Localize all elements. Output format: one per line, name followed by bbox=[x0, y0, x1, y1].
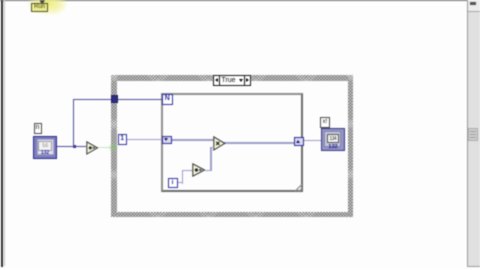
wire: i terminal right stub bbox=[178, 182, 183, 183]
control label "n" bbox=[34, 123, 42, 134]
case selector tunnel (green) bbox=[108, 142, 119, 153]
wire: horizontal to N terminal bbox=[73, 99, 163, 100]
increment node (+1) bbox=[192, 163, 206, 177]
wire: into multiply lower input bbox=[210, 147, 214, 148]
tooltip "Run" bbox=[31, 3, 48, 12]
wire: into increment node bbox=[182, 170, 193, 171]
wire: i vertical up bbox=[182, 170, 183, 184]
run-button tooltip yellow glow bbox=[26, 0, 68, 16]
wire: 1 to left shift register bbox=[127, 139, 163, 140]
indicator label bbox=[320, 117, 330, 128]
tunnel on case left border bbox=[111, 95, 119, 103]
scrollbar thumb grip lines bbox=[470, 131, 476, 132]
left border inner light line bbox=[4, 0, 5, 266]
case structure left border bbox=[111, 75, 117, 217]
tooltip glow secondary bbox=[44, 0, 68, 16]
N count terminal bbox=[162, 94, 173, 105]
mouse cursor fragment bbox=[39, 0, 45, 3]
left shift register terminal bbox=[162, 136, 172, 145]
wire: multiply output to right shift register bbox=[224, 142, 294, 143]
scrollbar track bbox=[468, 0, 480, 266]
top window edge line bbox=[0, 0, 480, 1]
right shift register terminal bbox=[294, 137, 304, 146]
constant "1" bbox=[118, 134, 127, 145]
wire: shift register to indicator bbox=[304, 140, 321, 141]
scrollbar top button bbox=[468, 0, 480, 12]
iteration terminal i bbox=[168, 178, 178, 189]
left window border bbox=[1, 0, 3, 267]
scrollbar bottom end line bbox=[467, 266, 480, 267]
case structure right border bbox=[348, 75, 354, 217]
for loop resize glyph bbox=[295, 184, 302, 191]
wire: junction vertical up bbox=[73, 99, 74, 147]
wire: increment output right bbox=[204, 170, 212, 171]
case structure top border bbox=[111, 75, 353, 81]
boolean wire to selector tunnel bbox=[97, 147, 111, 148]
wire: increment output vertical up bbox=[210, 147, 211, 172]
wire: shift register to multiply bbox=[172, 139, 214, 140]
compare node triangle bbox=[86, 141, 99, 155]
wire: control to compare node bbox=[56, 146, 86, 147]
control terminal icon bbox=[33, 136, 57, 159]
indicator terminal icon bbox=[321, 128, 345, 151]
case structure bottom border bbox=[111, 212, 353, 218]
scrollbar thumb bbox=[468, 128, 478, 141]
multiply node bbox=[213, 136, 226, 151]
case selector label bbox=[213, 75, 251, 86]
wire junction dot bbox=[73, 145, 77, 149]
scrollbar left separator line bbox=[467, 0, 468, 267]
scrollbar top button glyph bbox=[470, 2, 476, 6]
for loop frame bbox=[161, 93, 303, 192]
